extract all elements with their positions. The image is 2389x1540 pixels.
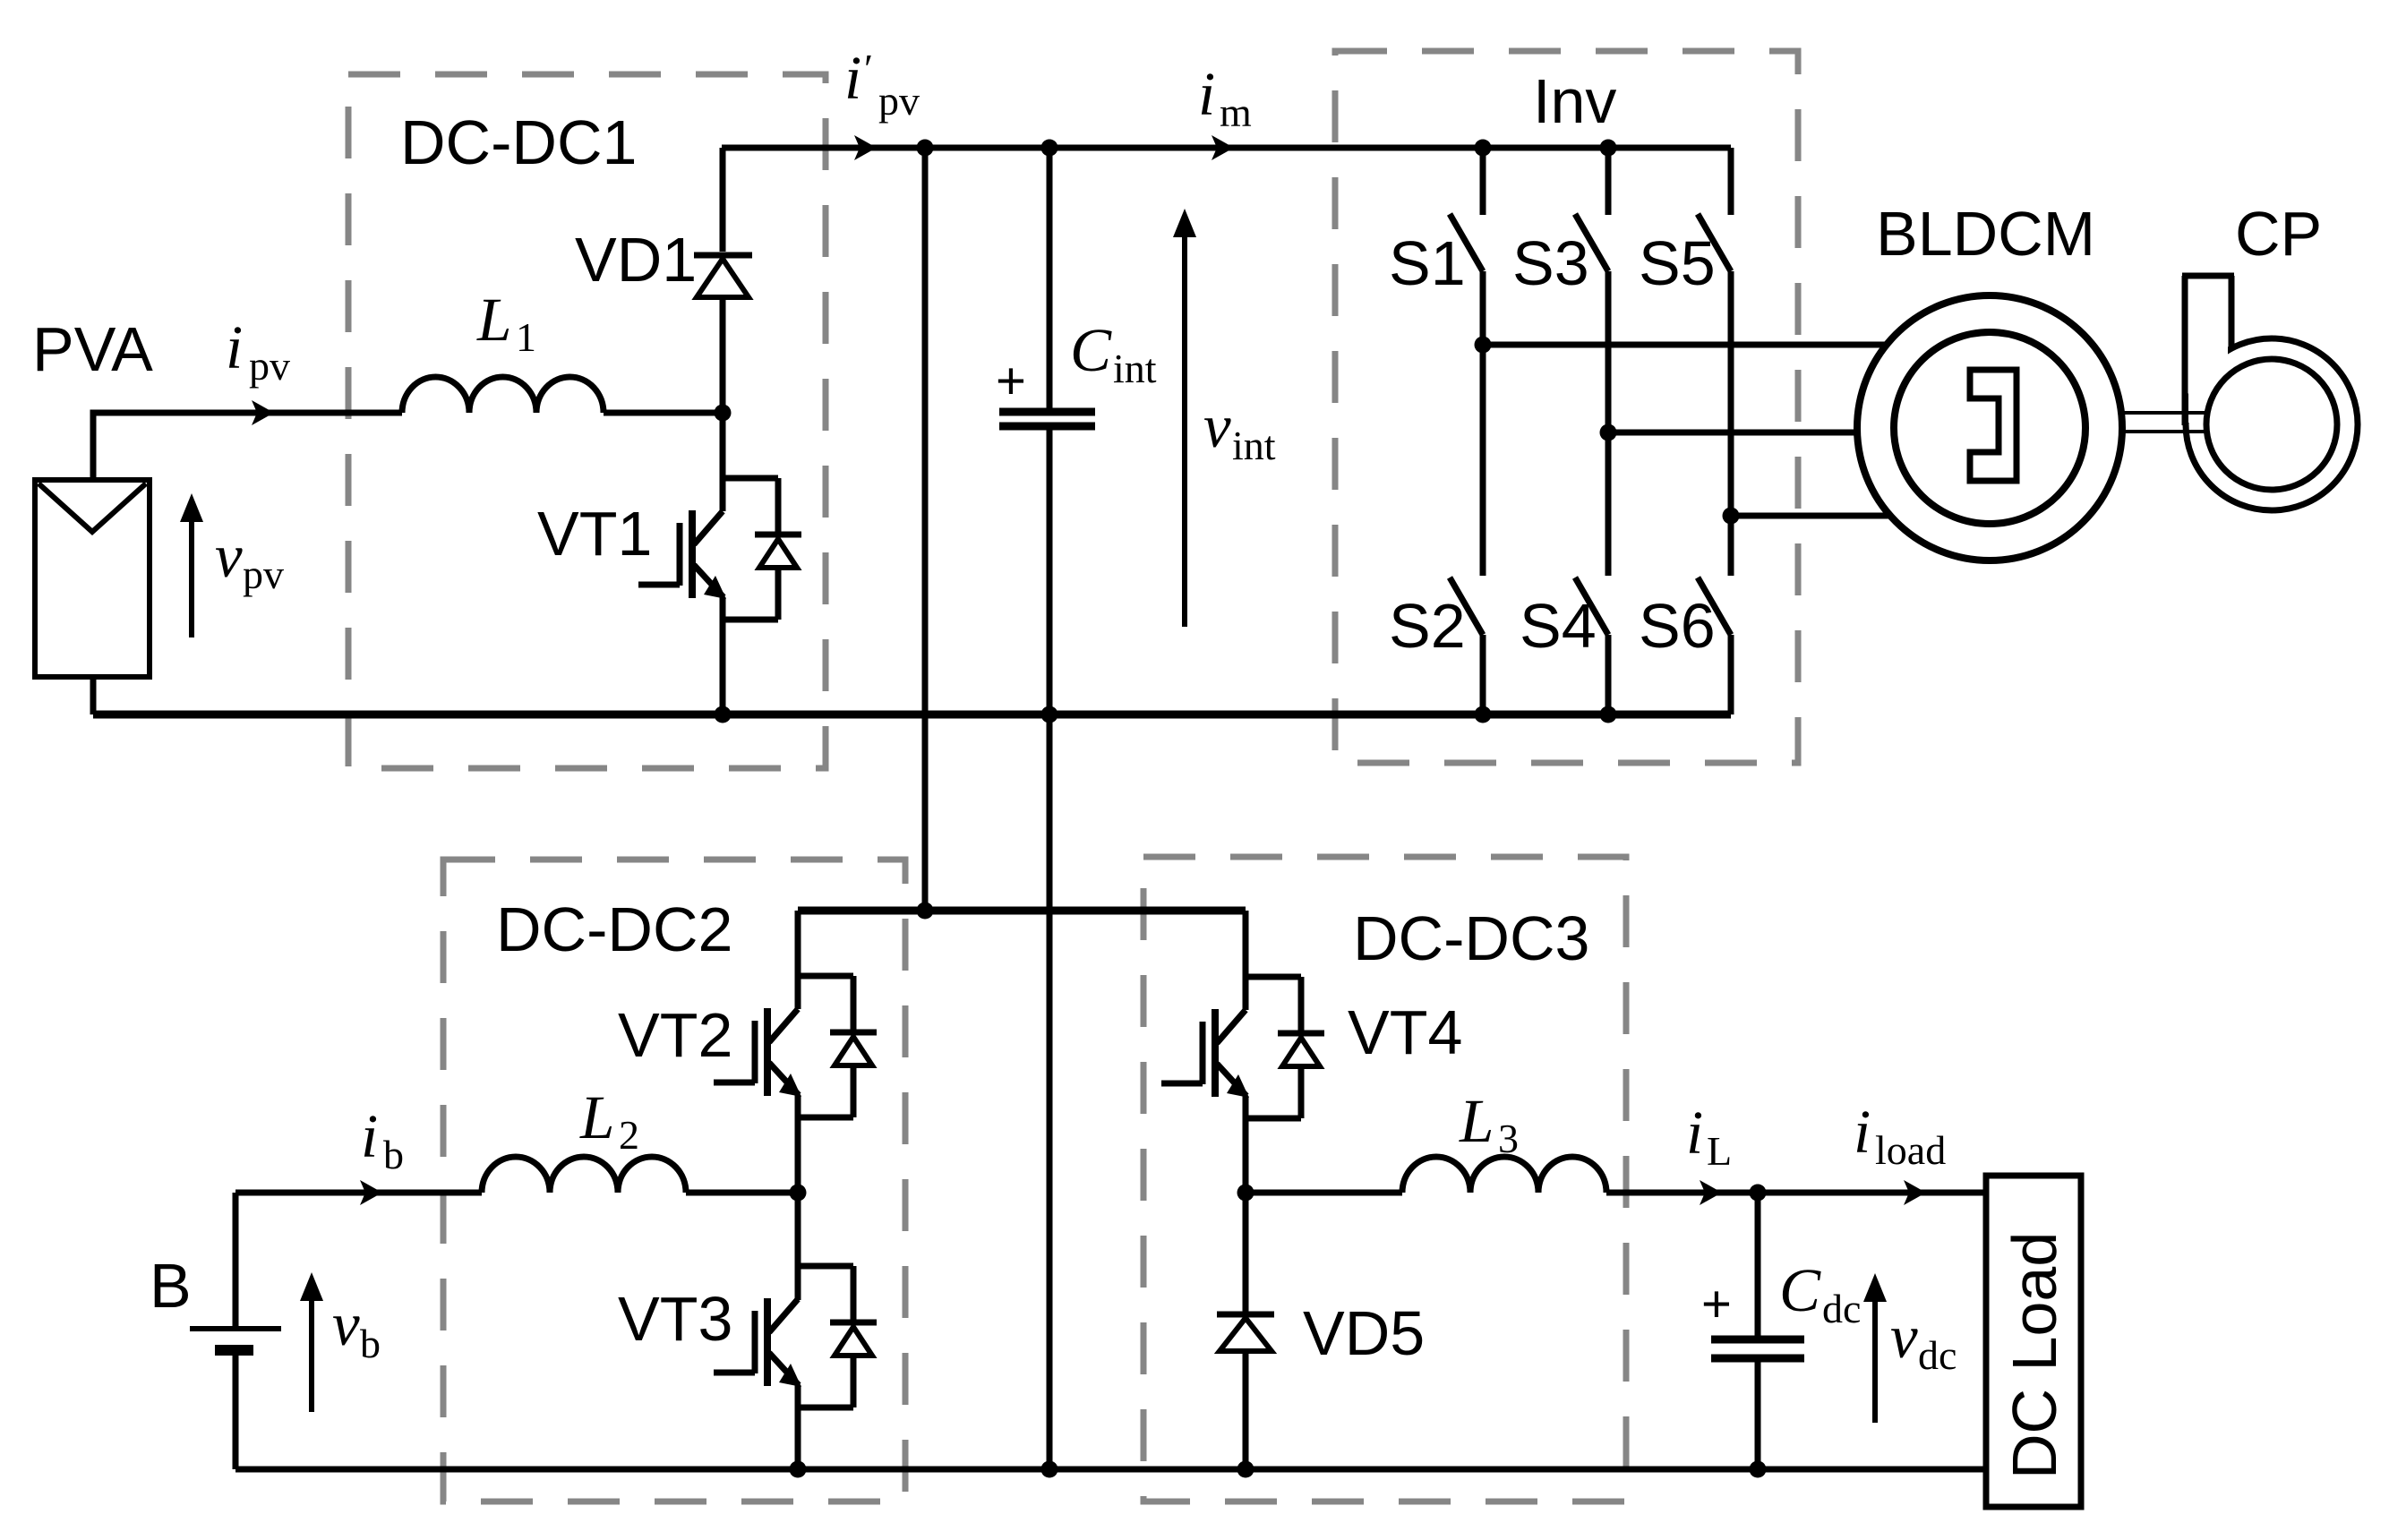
label i'_pv [844, 44, 920, 124]
dashed box Inv (inverter) [1335, 51, 1798, 763]
switch S1 [1450, 148, 1483, 345]
svg-text:3: 3 [1498, 1116, 1519, 1161]
svg-text:VT4: VT4 [1348, 997, 1462, 1067]
voltage arrow v_b [300, 1272, 323, 1412]
label v_b [332, 1290, 381, 1366]
svg-text:i: i [1686, 1099, 1703, 1167]
node VT3 / bottom bus [790, 1461, 807, 1478]
label i_load [1854, 1098, 1946, 1173]
bottom bus of top section [93, 711, 1731, 719]
node top bus / Cint [1041, 140, 1058, 157]
svg-text:b: b [383, 1132, 404, 1177]
svg-text:BLDCM: BLDCM [1876, 199, 2095, 269]
label i_pv [226, 313, 290, 389]
wire collector bus down to VT4 [1243, 911, 1249, 1010]
wire VT4 emitter to node [1243, 1096, 1249, 1193]
switch S2 [1450, 345, 1483, 714]
svg-text:VD5: VD5 [1303, 1298, 1425, 1368]
svg-text:int: int [1113, 346, 1157, 391]
svg-text:S4: S4 [1520, 591, 1597, 661]
diode VD5 [1217, 1193, 1274, 1469]
label v_pv [215, 522, 284, 597]
capacitor Cint upper lead [1047, 148, 1053, 408]
svg-text:pv: pv [249, 343, 290, 389]
label i_L [1686, 1099, 1732, 1174]
node VD5 / bottom bus [1237, 1461, 1254, 1478]
dashed box DC-DC3 [1143, 857, 1626, 1501]
svg-text:i: i [1854, 1098, 1871, 1166]
inductor L2 [482, 1157, 686, 1193]
DC Load box [1986, 1176, 2081, 1507]
arrow i_m [1212, 135, 1234, 160]
collector bus DC-DC2 to DC-DC3 [798, 907, 1246, 915]
arrow i'_pv [854, 135, 877, 160]
wire L1 to VD1 node [604, 410, 723, 416]
arrow i_load [1904, 1180, 1926, 1205]
svg-text:Inv: Inv [1533, 66, 1616, 136]
svg-text:dc: dc [1822, 1286, 1861, 1331]
svg-text:+: + [1701, 1275, 1732, 1333]
wire top bus to DC-DC2/3 collector bus [922, 148, 929, 911]
node phase B junction [1600, 424, 1617, 441]
svg-text:′: ′ [864, 46, 873, 91]
wire L2 to node [686, 1190, 798, 1196]
svg-text:L: L [1459, 1087, 1494, 1155]
svg-text:v: v [1890, 1303, 1918, 1371]
node collector bus / wire from top [917, 903, 934, 920]
svg-text:C: C [1070, 316, 1112, 384]
svg-text:S1: S1 [1389, 228, 1466, 298]
motor rotor bracket [1970, 370, 2017, 481]
node phase C junction [1723, 508, 1740, 525]
wire L3 to DC load [1606, 1190, 1986, 1196]
node S4 / bottom bus [1600, 706, 1617, 723]
switch S3 [1575, 148, 1608, 432]
main bottom bus [235, 1467, 1986, 1473]
arrow i_pv [252, 400, 274, 425]
svg-text:S2: S2 [1389, 591, 1466, 661]
node Cdc / output wire [1750, 1185, 1767, 1202]
svg-text:S6: S6 [1639, 591, 1716, 661]
inductor L1 [402, 377, 604, 413]
capacitor Cdc lower lead [1755, 1362, 1761, 1469]
inductor L3 [1402, 1157, 1606, 1193]
node top bus / S1 [1475, 140, 1492, 157]
capacitor Cdc upper lead [1755, 1193, 1761, 1336]
transistor VT2 (IGBT with antiparallel diode) [714, 976, 877, 1117]
wire battery to L2 [235, 1190, 482, 1196]
svg-text:L: L [579, 1083, 614, 1151]
wire VT3 emitter to bottom bus [795, 1385, 801, 1469]
svg-text:PVA: PVA [32, 314, 153, 384]
wire VT1 emitter to bottom bus [720, 597, 726, 714]
svg-text:S5: S5 [1639, 228, 1716, 298]
arrow i_L [1700, 1180, 1722, 1205]
dashed box DC-DC2 [443, 860, 905, 1501]
svg-text:pv: pv [243, 552, 284, 597]
capacitor Cint lower lead down to bottom bus [1047, 430, 1053, 1469]
transistor VT3 (IGBT with antiparallel diode) [714, 1266, 877, 1407]
node Cint / top-section bottom bus [1041, 706, 1058, 723]
switch S5 [1698, 148, 1731, 516]
label Cint [1070, 316, 1157, 391]
wire VT2 emitter to node [795, 1095, 801, 1193]
transistor VT4 (IGBT with antiparallel diode) [1161, 977, 1324, 1118]
dashed box DC-DC1 [348, 74, 826, 768]
label L1 [476, 286, 536, 360]
shaft between motor and pump [2120, 413, 2208, 432]
svg-text:v: v [332, 1290, 360, 1358]
svg-text:dc: dc [1918, 1332, 1957, 1378]
svg-text:L: L [476, 286, 511, 354]
wire phase B to motor [1608, 430, 1859, 436]
voltage arrow v_int [1173, 209, 1196, 627]
svg-text:i: i [361, 1102, 378, 1170]
wire PVA negative lead [90, 677, 97, 714]
wire VD1 node to VT1 [720, 413, 726, 511]
label L2 [579, 1083, 639, 1158]
svg-text:+: + [996, 352, 1026, 410]
motor BLDCM outer circle [1857, 295, 2122, 560]
svg-text:i: i [226, 313, 243, 381]
wire phase A to motor [1483, 342, 1889, 348]
svg-text:i: i [1198, 60, 1215, 128]
svg-text:DC-DC3: DC-DC3 [1353, 903, 1589, 973]
svg-text:load: load [1875, 1127, 1946, 1173]
svg-text:int: int [1232, 423, 1276, 468]
label v_dc [1890, 1303, 1957, 1378]
wire node to L3 [1246, 1190, 1402, 1196]
svg-text:i: i [844, 44, 861, 112]
node top bus / S3 [1600, 140, 1617, 157]
svg-text:pv: pv [878, 78, 920, 124]
node L2 / VT2 / VT3 [790, 1185, 807, 1202]
svg-text:v: v [1203, 392, 1231, 460]
node VT1 emitter / bottom bus [715, 706, 732, 723]
switch S4 [1575, 432, 1608, 714]
svg-text:VT1: VT1 [537, 499, 652, 569]
wire PVA positive lead to L1 [93, 413, 402, 480]
pump CP inner circle [2206, 359, 2337, 490]
wire phase C to motor [1731, 513, 1891, 519]
switch S6 [1698, 516, 1731, 714]
battery B [190, 1193, 281, 1469]
capacitor Cint plates [999, 412, 1095, 426]
svg-text:VT3: VT3 [618, 1284, 732, 1354]
svg-text:C: C [1779, 1256, 1821, 1324]
PVA panel symbol [35, 480, 150, 677]
svg-text:CP: CP [2235, 199, 2322, 269]
node VT4 / VD5 / L3 [1237, 1185, 1254, 1202]
svg-text:VT2: VT2 [618, 1000, 732, 1070]
wire node to VT3 [795, 1193, 801, 1300]
node S2 / bottom bus [1475, 706, 1492, 723]
node Cdc / bottom bus [1750, 1461, 1767, 1478]
top bus wire (boost output) [722, 145, 1731, 151]
label L3 [1459, 1087, 1519, 1161]
diode VD1 [694, 148, 752, 413]
label v_int [1203, 392, 1276, 468]
svg-text:b: b [360, 1321, 381, 1366]
svg-text:DC Load: DC Load [1999, 1232, 2069, 1479]
voltage arrow v_dc [1863, 1273, 1887, 1423]
pump CP discharge pipe [2182, 274, 2234, 425]
svg-text:DC-DC1: DC-DC1 [400, 107, 637, 177]
svg-text:DC-DC2: DC-DC2 [496, 894, 732, 964]
arrow i_b [360, 1180, 382, 1205]
svg-text:B: B [150, 1251, 192, 1321]
svg-text:1: 1 [516, 314, 536, 360]
motor BLDCM inner circle [1894, 332, 2085, 524]
wire collector bus down to VT2 [795, 911, 801, 1009]
svg-text:2: 2 [619, 1112, 639, 1158]
svg-text:L: L [1707, 1128, 1732, 1174]
node top bus / i'pv junction [917, 140, 934, 157]
capacitor Cdc plates [1711, 1339, 1804, 1358]
node L1/VD1/VT1 junction [715, 405, 732, 422]
svg-text:S3: S3 [1512, 228, 1589, 298]
pump CP outer circle [2186, 338, 2358, 510]
svg-text:m: m [1220, 90, 1252, 135]
svg-text:VD1: VD1 [575, 225, 697, 295]
label i_m [1198, 60, 1252, 135]
svg-text:v: v [215, 522, 243, 590]
transistor VT1 (IGBT with antiparallel diode) [638, 478, 801, 620]
node phase A junction [1475, 337, 1492, 354]
label i_b [361, 1102, 404, 1177]
voltage arrow v_pv [180, 493, 203, 637]
label Cdc [1779, 1256, 1861, 1331]
node Cint / main bottom bus [1041, 1461, 1058, 1478]
